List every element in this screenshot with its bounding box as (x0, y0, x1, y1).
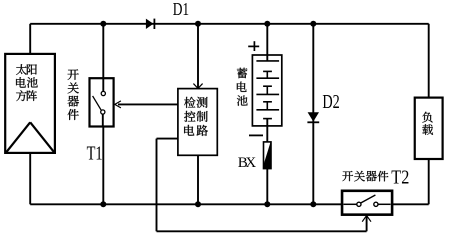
svg-text:D2: D2 (322, 91, 339, 113)
svg-text:D1: D1 (173, 0, 189, 19)
svg-text:T2: T2 (391, 166, 409, 188)
svg-text:T1: T1 (87, 144, 103, 165)
svg-text:BX: BX (238, 155, 257, 171)
